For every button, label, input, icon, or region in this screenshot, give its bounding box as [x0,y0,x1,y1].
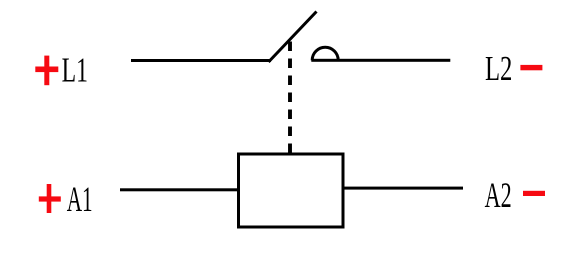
wire A1 to coil [120,188,238,191]
switch blade [269,12,317,63]
label L2 [485,50,512,88]
label A1 [67,181,93,220]
svg-text:L2: L2 [485,50,512,88]
wire L1 to switch [131,59,271,62]
terminal polarity minus (L2) [520,65,542,70]
switch contact arc [312,47,338,60]
terminal polarity plus (L1) [35,56,58,86]
terminal polarity minus (A2) [523,191,545,196]
svg-text:A1: A1 [67,181,93,220]
svg-text:A2: A2 [485,177,512,215]
svg-text:L1: L1 [62,52,88,89]
label A2 [485,177,512,215]
wire coil to A2 [344,187,463,190]
coil K1 [239,154,344,227]
wire switch to L2 [311,59,450,62]
mechanical link (dashed) [288,42,292,153]
label L1 [62,52,88,89]
terminal polarity plus (A1) [39,184,61,213]
